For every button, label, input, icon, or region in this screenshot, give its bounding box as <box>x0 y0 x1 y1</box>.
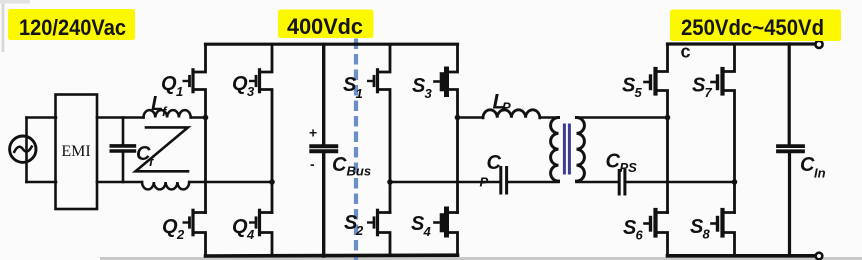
capacitor Cf plates <box>111 146 134 151</box>
wire emi out top <box>97 116 144 119</box>
svg-text:Q: Q <box>232 73 248 95</box>
node S3S4 midpoint <box>455 115 461 121</box>
inductor Lf top winding <box>144 110 191 117</box>
ac source sine <box>14 147 31 152</box>
wire Lf bottom to leg B <box>189 181 272 184</box>
svg-text:Q: Q <box>162 216 178 238</box>
label 400Vdc <box>278 10 374 40</box>
svg-text:c: c <box>681 42 691 62</box>
svg-text:2: 2 <box>355 223 364 238</box>
ac source circle <box>10 136 36 162</box>
capacitor Cp plates <box>501 168 507 194</box>
transistor S3 <box>446 45 458 213</box>
bottom rail bus 2 <box>668 254 816 258</box>
node S1S2 midpoint <box>387 179 393 185</box>
node S7S8 midpoint <box>732 179 738 185</box>
transistor S5 <box>656 44 668 213</box>
svg-text:7: 7 <box>705 85 713 100</box>
svg-text:C: C <box>487 152 502 174</box>
svg-text:Q: Q <box>232 216 248 238</box>
inductor Lf core Z symbol <box>136 127 189 171</box>
transistor Q2 <box>193 213 206 257</box>
transformer core <box>564 124 569 175</box>
transistor Q3 <box>260 45 273 213</box>
transistor S6 <box>656 213 668 256</box>
capacitor CBus plates <box>311 146 336 151</box>
svg-text:8: 8 <box>703 227 711 242</box>
svg-text:PS: PS <box>620 160 638 175</box>
transistor S8 <box>723 213 735 256</box>
inductor Lf bottom winding <box>142 182 189 189</box>
transistor S2 <box>378 213 391 256</box>
wire ac vertical <box>25 118 28 183</box>
svg-text:2: 2 <box>176 227 185 242</box>
svg-text:Q: Q <box>161 73 177 95</box>
transistor Q4 <box>260 213 273 257</box>
capacitor CIn leg bottom <box>788 153 791 256</box>
svg-text:In: In <box>814 166 826 181</box>
svg-text:3: 3 <box>425 86 433 101</box>
svg-text:400Vdc: 400Vdc <box>287 14 363 39</box>
label 250Vdc~450Vdc <box>670 10 841 62</box>
transistor S4 <box>446 213 458 256</box>
svg-text:4: 4 <box>423 224 432 239</box>
wire Lf top to leg A <box>191 116 206 119</box>
wire transformer secondary top to S5S6 midpoint <box>577 116 668 119</box>
svg-text:6: 6 <box>636 228 644 243</box>
svg-text:P: P <box>480 175 489 190</box>
svg-text:4: 4 <box>246 227 255 242</box>
capacitor CBus leg top <box>322 45 325 145</box>
inductor Lp <box>483 110 540 118</box>
transformer primary winding <box>551 118 559 182</box>
wire Lp to transformer <box>540 116 559 119</box>
capacitor Cps plates <box>619 171 625 195</box>
capacitor CIn leg top <box>788 44 791 144</box>
wire S3S4 midpoint to Lp <box>458 116 484 119</box>
node S5S6 midpoint <box>665 115 671 121</box>
transistor Q1 <box>193 45 206 213</box>
transformer secondary winding <box>577 118 585 182</box>
svg-text:Bus: Bus <box>347 164 372 179</box>
svg-text:C: C <box>606 151 621 173</box>
output terminal bottom <box>816 253 823 260</box>
capacitor CIn plates <box>778 146 803 151</box>
capacitor CBus leg bottom <box>322 153 325 256</box>
wire S1S2 midpoint to Cp <box>390 181 499 184</box>
svg-text:C: C <box>800 154 815 176</box>
svg-text:P: P <box>502 100 511 115</box>
frame artifact left edge <box>2 0 5 52</box>
frame artifact bottom edge <box>100 257 862 260</box>
top rail bus 1 <box>206 43 458 46</box>
node Lf bottom / leg B midpoint <box>269 179 275 185</box>
svg-text:250Vdc~450Vd: 250Vdc~450Vd <box>681 15 824 40</box>
wire ac bottom lead <box>27 181 57 184</box>
capacitor Cf lead bottom <box>122 153 125 182</box>
output terminal top <box>815 41 822 48</box>
wire Cps to S7S8 midpoint <box>627 181 734 184</box>
top rail bus 2 <box>668 42 816 45</box>
wire emi out bottom <box>97 181 142 184</box>
EMI filter box <box>56 95 98 210</box>
capacitor Cf lead top <box>122 118 125 145</box>
wire ac top lead <box>27 116 57 119</box>
svg-text:3: 3 <box>247 84 255 99</box>
svg-text:+: + <box>309 125 317 141</box>
svg-text:C: C <box>332 154 347 176</box>
frame artifact top-left corner <box>0 0 30 4</box>
svg-text:-: - <box>310 156 315 172</box>
dashed blue split line <box>354 39 358 260</box>
svg-text:1: 1 <box>356 86 363 101</box>
bottom rail bus 1 <box>206 253 458 257</box>
label 120/240Vac <box>8 9 135 40</box>
svg-text:EMI: EMI <box>61 143 90 160</box>
transistor S1 <box>378 45 391 213</box>
wire transformer secondary bottom to Cps <box>577 181 617 184</box>
svg-text:5: 5 <box>635 85 643 100</box>
node Lf top / leg A midpoint <box>203 115 209 121</box>
svg-text:1: 1 <box>176 84 183 99</box>
wire Cp to transformer primary bottom <box>509 180 559 183</box>
svg-text:120/240Vac: 120/240Vac <box>19 15 126 40</box>
transistor S7 <box>723 44 735 213</box>
